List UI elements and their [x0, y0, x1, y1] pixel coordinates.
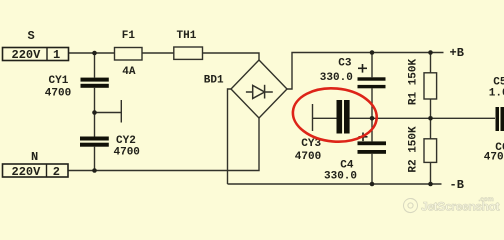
- capacitor C5: [489, 77, 504, 131]
- svg-text:4700: 4700: [114, 147, 140, 159]
- svg-text:F1: F1: [122, 30, 136, 42]
- svg-text:CY1: CY1: [49, 75, 69, 87]
- svg-text:330.0: 330.0: [320, 72, 353, 84]
- capacitor CY3: [295, 100, 350, 163]
- wire N rail: [68, 118, 259, 171]
- wire middle rail: [313, 117, 337, 119]
- svg-text:S: S: [28, 29, 35, 43]
- node earth tick: [120, 100, 122, 123]
- wire C3 C4 column: [371, 53, 373, 78]
- resistor R2: [407, 126, 436, 173]
- node junction R2 bottom: [428, 182, 433, 187]
- fuse F1: [115, 30, 143, 78]
- svg-text:N: N: [31, 150, 38, 164]
- svg-text:BD1: BD1: [204, 75, 224, 87]
- svg-text:C4: C4: [340, 159, 354, 171]
- capacitor C3: [320, 57, 386, 88]
- svg-text:2: 2: [53, 165, 60, 179]
- bridge rectifier BD1: [204, 60, 287, 118]
- wire bridge right to top right rail: [287, 53, 444, 90]
- node junction earth: [92, 110, 97, 115]
- svg-text:+B: +B: [450, 46, 464, 60]
- wire top rail left: [69, 53, 260, 60]
- wire earth stub: [95, 112, 122, 114]
- svg-text:220V: 220V: [12, 48, 42, 62]
- svg-text:C3: C3: [338, 57, 352, 69]
- svg-text:CY2: CY2: [116, 135, 136, 147]
- svg-text:.com: .com: [479, 196, 494, 203]
- capacitor CY2: [80, 135, 140, 158]
- resistor R1: [407, 59, 436, 106]
- svg-text:R2 150K: R2 150K: [407, 126, 419, 173]
- svg-text:1: 1: [53, 48, 60, 62]
- annotation red circle: [291, 85, 379, 145]
- node junction top CY1: [92, 51, 97, 56]
- watermark JetScreenshot.com: [404, 196, 500, 214]
- wire CY1 column: [94, 53, 96, 78]
- node junction +B: [428, 50, 433, 55]
- thermistor TH1: [174, 30, 203, 59]
- wire R column: [430, 53, 432, 73]
- node CY3 open lead tick: [312, 104, 314, 131]
- node junction C4 bottom: [370, 182, 375, 187]
- svg-text:4700: 4700: [295, 151, 321, 163]
- wire bridge left to bottom rail: [228, 89, 232, 184]
- svg-text:220V: 220V: [12, 165, 42, 179]
- svg-text:R1 150K: R1 150K: [407, 59, 419, 106]
- svg-text:1.0: 1.0: [489, 87, 504, 99]
- diode inside BD1: [246, 85, 273, 99]
- capacitor CY1: [45, 75, 109, 100]
- connector S box: [3, 48, 69, 63]
- svg-text:TH1: TH1: [177, 30, 197, 42]
- svg-text:4700: 4700: [484, 151, 504, 163]
- capacitor C6 label: [484, 142, 504, 163]
- node junction R1 R2: [428, 116, 433, 121]
- svg-text:-B: -B: [450, 178, 464, 192]
- wire bottom rail: [228, 183, 442, 185]
- svg-text:4A: 4A: [122, 66, 136, 78]
- node junction bottom CY2: [92, 168, 97, 173]
- svg-text:330.0: 330.0: [324, 171, 357, 183]
- node junction C3 C4 CY3: [370, 116, 375, 121]
- connector N box: [3, 164, 69, 179]
- node junction C3 top: [370, 50, 375, 55]
- capacitor C4: [324, 133, 386, 183]
- svg-text:4700: 4700: [45, 88, 71, 100]
